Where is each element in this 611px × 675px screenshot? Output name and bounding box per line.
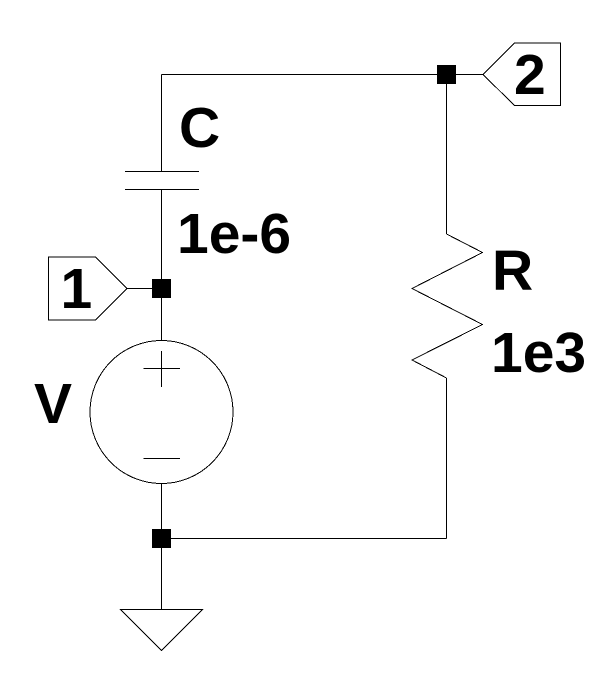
node flag 2 (pentagon outline) [483,43,561,106]
wire: stub from node flag 1 tip to junction [127,288,161,290]
svg-text:1e-6: 1e-6 [177,202,291,266]
svg-text:1e3: 1e3 [491,321,586,385]
node flag 1 (pentagon outline) [49,257,128,320]
wire: stub from junction to node flag 2 tip [455,74,483,76]
capacitor C (two plates) [125,172,199,190]
svg-text:V: V [34,372,72,436]
voltage source V plus sign [144,351,181,387]
ground symbol (triangle) [121,610,203,651]
wire: right branch from node 2 down to resistor R top [446,75,448,235]
wire: top net, node 2 horizontal run [162,74,447,76]
ground node junction (solid square) [152,529,171,548]
node 2 junction (solid square) [437,65,456,84]
voltage source V circle [90,341,233,484]
svg-text:1: 1 [61,257,93,321]
wire: from voltage source V bottom to ground node [161,484,163,610]
svg-text:C: C [179,96,220,160]
wire: from resistor R bottom to bottom net [446,378,448,539]
wire: from capacitor C bottom plate down to voltage source V top [161,190,163,342]
svg-text:2: 2 [514,43,546,107]
voltage source V minus sign [144,458,181,460]
node 1 junction (solid square) [152,279,171,298]
resistor R (zigzag) [412,234,483,378]
wire: bottom net from ground node to resistor R branch [162,538,447,540]
svg-text:R: R [492,239,533,303]
wire: left branch from top net down to capacitor C top plate [161,75,163,172]
